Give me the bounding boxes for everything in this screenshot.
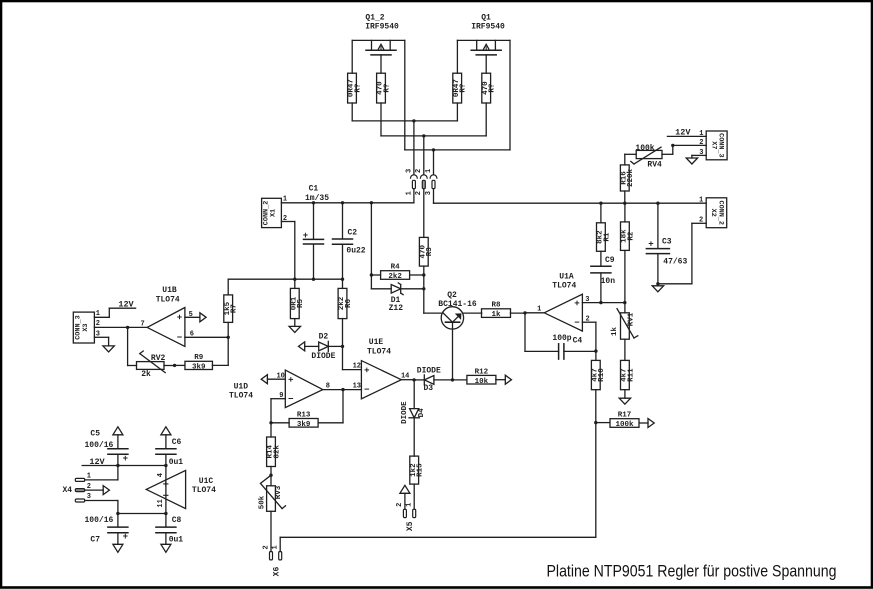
svg-text:R3: R3 bbox=[426, 247, 434, 257]
svg-text:10n: 10n bbox=[601, 277, 616, 286]
svg-text:100p: 100p bbox=[552, 334, 571, 343]
svg-text:Z12: Z12 bbox=[389, 304, 404, 313]
svg-text:12V: 12V bbox=[118, 300, 134, 310]
svg-text:1k: 1k bbox=[611, 327, 619, 337]
svg-text:100/16: 100/16 bbox=[84, 516, 113, 525]
svg-text:U1A: U1A bbox=[559, 273, 574, 282]
svg-text:2: 2 bbox=[699, 216, 703, 224]
svg-text:12: 12 bbox=[353, 363, 361, 371]
svg-text:TLO74: TLO74 bbox=[552, 282, 576, 291]
svg-text:R?: R? bbox=[460, 83, 468, 93]
svg-text:5: 5 bbox=[189, 311, 193, 319]
svg-text:2: 2 bbox=[415, 191, 423, 195]
svg-text:R10: R10 bbox=[598, 368, 606, 382]
svg-text:12V: 12V bbox=[89, 457, 105, 467]
svg-text:100k: 100k bbox=[615, 421, 634, 429]
svg-text:IRF9540: IRF9540 bbox=[365, 23, 399, 32]
svg-text:47/63: 47/63 bbox=[663, 258, 687, 267]
svg-text:1k: 1k bbox=[491, 311, 501, 319]
svg-text:R17: R17 bbox=[618, 412, 632, 420]
svg-text:1: 1 bbox=[272, 545, 280, 549]
svg-text:IRF9540: IRF9540 bbox=[471, 23, 505, 32]
svg-text:2k: 2k bbox=[141, 370, 151, 379]
svg-text:0u22: 0u22 bbox=[346, 246, 365, 255]
svg-text:C8: C8 bbox=[172, 516, 182, 525]
svg-text:R?: R? bbox=[354, 83, 362, 93]
svg-text:C3: C3 bbox=[662, 237, 672, 246]
svg-text:DIODE: DIODE bbox=[417, 366, 441, 375]
svg-text:R8: R8 bbox=[491, 302, 501, 310]
svg-text:3k9: 3k9 bbox=[192, 364, 206, 372]
svg-text:50k: 50k bbox=[259, 495, 267, 509]
svg-text:R?: R? bbox=[383, 83, 391, 93]
svg-text:R13: R13 bbox=[297, 411, 311, 419]
svg-text:Q1: Q1 bbox=[481, 14, 491, 23]
svg-text:U1D: U1D bbox=[234, 382, 249, 391]
svg-text:C9: C9 bbox=[605, 256, 615, 265]
svg-text:R12: R12 bbox=[475, 368, 489, 376]
svg-text:CONN_3: CONN_3 bbox=[717, 133, 725, 157]
svg-text:12V: 12V bbox=[675, 128, 691, 138]
svg-text:11: 11 bbox=[157, 499, 165, 507]
svg-text:X4: X4 bbox=[62, 486, 72, 495]
svg-text:TLO74: TLO74 bbox=[192, 486, 216, 495]
svg-text:4: 4 bbox=[157, 473, 165, 477]
svg-text:2: 2 bbox=[396, 503, 404, 507]
svg-text:Q1_2: Q1_2 bbox=[365, 14, 384, 23]
svg-text:RV2: RV2 bbox=[151, 354, 166, 363]
svg-text:C6: C6 bbox=[172, 438, 182, 447]
svg-text:D2: D2 bbox=[319, 333, 329, 342]
svg-text:X1: X1 bbox=[269, 209, 277, 217]
svg-text:R15: R15 bbox=[417, 463, 425, 477]
svg-text:X3: X3 bbox=[82, 323, 90, 331]
svg-text:3k9: 3k9 bbox=[297, 421, 311, 429]
svg-text:6: 6 bbox=[190, 330, 194, 338]
svg-text:1m/35: 1m/35 bbox=[305, 194, 329, 203]
svg-text:1: 1 bbox=[537, 305, 541, 313]
svg-text:RV4: RV4 bbox=[647, 161, 662, 170]
svg-text:+: + bbox=[303, 231, 308, 241]
svg-text:X7: X7 bbox=[709, 141, 717, 149]
svg-text:1: 1 bbox=[699, 197, 703, 205]
svg-text:R5: R5 bbox=[297, 299, 305, 309]
svg-text:2: 2 bbox=[585, 315, 589, 323]
svg-text:BC141-16: BC141-16 bbox=[438, 300, 477, 309]
svg-text:3: 3 bbox=[699, 149, 703, 157]
svg-text:Platine NTP9051 Regler für pos: Platine NTP9051 Regler für postive Spann… bbox=[547, 562, 837, 581]
svg-text:U1B: U1B bbox=[162, 286, 177, 295]
svg-text:3: 3 bbox=[425, 191, 433, 195]
svg-text:2: 2 bbox=[262, 545, 270, 549]
svg-text:+: + bbox=[648, 240, 653, 250]
svg-text:+: + bbox=[123, 532, 128, 542]
svg-text:X6: X6 bbox=[273, 567, 282, 577]
svg-text:1: 1 bbox=[425, 169, 433, 173]
svg-text:R1: R1 bbox=[603, 232, 611, 242]
svg-text:0u1: 0u1 bbox=[169, 458, 184, 467]
svg-text:R2: R2 bbox=[627, 231, 635, 241]
svg-text:1: 1 bbox=[405, 191, 413, 195]
svg-text:X5: X5 bbox=[406, 521, 415, 531]
svg-text:C4: C4 bbox=[573, 337, 583, 346]
svg-text:13: 13 bbox=[353, 382, 361, 390]
svg-text:R11: R11 bbox=[627, 368, 635, 382]
svg-text:1: 1 bbox=[87, 472, 91, 480]
svg-text:CONN_2: CONN_2 bbox=[716, 201, 724, 225]
svg-text:C5: C5 bbox=[90, 429, 100, 438]
svg-text:2: 2 bbox=[415, 169, 423, 173]
svg-text:1: 1 bbox=[283, 196, 287, 204]
svg-text:R7: R7 bbox=[231, 304, 239, 313]
svg-text:RV1: RV1 bbox=[628, 312, 636, 326]
svg-text:D3: D3 bbox=[423, 384, 433, 393]
svg-text:C7: C7 bbox=[90, 536, 100, 545]
svg-text:R4: R4 bbox=[391, 264, 401, 272]
svg-text:R6: R6 bbox=[345, 299, 353, 309]
svg-text:Q2: Q2 bbox=[447, 291, 457, 300]
svg-text:RV3: RV3 bbox=[275, 485, 283, 499]
svg-text:2: 2 bbox=[699, 139, 703, 147]
svg-text:TLO74: TLO74 bbox=[229, 392, 253, 401]
svg-text:R?: R? bbox=[489, 83, 497, 93]
svg-text:1: 1 bbox=[406, 503, 414, 507]
svg-text:D4: D4 bbox=[418, 408, 426, 418]
svg-text:3: 3 bbox=[405, 169, 413, 173]
svg-text:82k: 82k bbox=[273, 445, 281, 459]
svg-text:100/16: 100/16 bbox=[84, 441, 113, 450]
svg-text:DIODE: DIODE bbox=[401, 401, 409, 424]
svg-text:U1C: U1C bbox=[199, 477, 214, 486]
svg-text:0u1: 0u1 bbox=[169, 536, 184, 545]
svg-text:C2: C2 bbox=[347, 228, 357, 237]
svg-text:3: 3 bbox=[585, 296, 589, 304]
svg-text:+: + bbox=[123, 454, 128, 464]
svg-text:10k: 10k bbox=[475, 378, 489, 386]
svg-text:220k: 220k bbox=[627, 168, 635, 187]
svg-text:R9: R9 bbox=[194, 354, 204, 362]
svg-text:U1E: U1E bbox=[369, 338, 384, 347]
svg-text:C1: C1 bbox=[309, 185, 319, 194]
svg-text:DIODE: DIODE bbox=[311, 352, 335, 361]
svg-text:TLO74: TLO74 bbox=[156, 295, 180, 304]
svg-text:2k2: 2k2 bbox=[388, 273, 402, 281]
svg-text:X2: X2 bbox=[709, 209, 717, 217]
svg-text:TLO74: TLO74 bbox=[367, 347, 391, 356]
svg-text:100k: 100k bbox=[635, 144, 654, 153]
svg-text:1: 1 bbox=[699, 130, 703, 138]
